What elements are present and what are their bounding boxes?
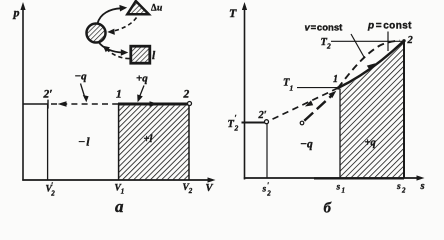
label T1 bbox=[283, 78, 293, 93]
svg-text:2: 2 bbox=[407, 35, 414, 46]
svg-text:1: 1 bbox=[116, 89, 122, 101]
solid arrow circle to triangle bbox=[98, 5, 128, 24]
vertical line at V2' bbox=[47, 104, 49, 180]
right arrowhead on bold isobar bbox=[150, 101, 159, 107]
bold isobar curve 1 to 2 bbox=[338, 41, 404, 88]
label V2' bbox=[46, 181, 56, 198]
V axis bbox=[22, 177, 215, 182]
thick scanned segment of s axis bbox=[314, 177, 404, 179]
label V1 bbox=[115, 184, 125, 196]
small open circle end of isobar extension bbox=[300, 121, 304, 125]
svg-text:+q: +q bbox=[136, 73, 148, 85]
svg-text:б: б bbox=[324, 201, 332, 217]
leader from v=const to isochore bbox=[351, 34, 364, 57]
vertical line from 2' to axis bbox=[266, 124, 268, 178]
svg-text:2: 2 bbox=[183, 89, 190, 101]
svg-text:′: ′ bbox=[267, 181, 269, 190]
svg-text:1: 1 bbox=[333, 74, 338, 85]
isobar dashed segment 2' to 1 (wire) bbox=[51, 103, 118, 105]
svg-text:s: s bbox=[336, 183, 341, 193]
point 2' open circle bbox=[265, 120, 269, 124]
svg-text:V: V bbox=[206, 183, 214, 194]
svg-text:u: u bbox=[157, 4, 162, 14]
left border of hatch at s1 bbox=[339, 89, 341, 178]
T2 level line to point 2 bbox=[331, 40, 404, 42]
svg-text:2: 2 bbox=[401, 187, 406, 195]
hatched work area +l bbox=[119, 106, 189, 180]
svg-text:2: 2 bbox=[50, 190, 55, 198]
svg-text:2: 2 bbox=[188, 187, 193, 195]
svg-text:1: 1 bbox=[290, 84, 294, 93]
svg-text:′: ′ bbox=[51, 181, 53, 190]
s axis bbox=[244, 175, 425, 180]
point 1 dot bbox=[337, 86, 340, 89]
arrowhead on isobar curve bbox=[367, 63, 376, 70]
svg-text:s: s bbox=[396, 182, 401, 192]
label V2 bbox=[183, 183, 193, 195]
svg-text:−q: −q bbox=[75, 71, 88, 83]
p axis bbox=[20, 2, 25, 181]
svg-text:а: а bbox=[115, 197, 124, 216]
isobar solid segment axis to 2' bbox=[23, 103, 48, 105]
svg-text:2′: 2′ bbox=[258, 110, 267, 121]
solid arrow circle to square bbox=[99, 42, 129, 56]
bold dashed isobar extension below 1 bbox=[304, 94, 333, 120]
label s2' bbox=[262, 181, 272, 198]
hatched heat area +q bbox=[340, 41, 404, 177]
svg-text:− l: − l bbox=[78, 135, 90, 149]
label T2 bbox=[321, 37, 332, 51]
T2' level line bbox=[242, 122, 265, 124]
right border of hatch at s2 bbox=[403, 41, 405, 178]
svg-text:−q: −q bbox=[300, 139, 313, 151]
svg-text:s: s bbox=[262, 185, 267, 195]
label s2 bbox=[396, 182, 406, 195]
svg-text:p = const: p = const bbox=[367, 21, 412, 32]
tick at point 2' bbox=[47, 100, 49, 109]
arrowhead on isochore toward 2' bbox=[305, 100, 313, 106]
vertical line at V2 bbox=[188, 105, 190, 180]
point 2 dot bbox=[402, 39, 405, 42]
svg-text:+q: +q bbox=[365, 138, 376, 149]
svg-text:2: 2 bbox=[266, 190, 271, 198]
svg-text:1: 1 bbox=[121, 188, 125, 196]
T1 level line to point 1 bbox=[297, 87, 338, 89]
svg-text:v = const: v = const bbox=[305, 23, 344, 34]
svg-text:T: T bbox=[228, 119, 235, 130]
T axis bbox=[242, 2, 247, 180]
label T2' bbox=[228, 114, 239, 133]
leader arrow from +q to bold isobar bbox=[137, 86, 144, 103]
left arrowhead on dashed isobar bbox=[58, 101, 67, 107]
dashed isochore 1 to 2' bbox=[268, 88, 338, 121]
svg-text:T: T bbox=[229, 6, 237, 20]
dashed arrow triangle to circle bbox=[107, 18, 136, 35]
svg-text:2: 2 bbox=[234, 124, 239, 133]
leader arrow from -q to dashed isobar bbox=[81, 84, 89, 103]
hatched square l bbox=[131, 46, 150, 63]
svg-text:s: s bbox=[420, 181, 425, 192]
svg-text:1: 1 bbox=[342, 187, 346, 195]
svg-text:′: ′ bbox=[235, 114, 237, 123]
hatched circle (heat source) bbox=[87, 24, 106, 43]
dashed arrow square to circle bbox=[103, 46, 130, 59]
label s1 bbox=[336, 183, 346, 195]
vertical line at V1 bbox=[118, 104, 120, 180]
point 2 open circle bbox=[188, 102, 192, 106]
svg-text:2: 2 bbox=[326, 42, 331, 51]
label delta-u bbox=[151, 3, 162, 14]
dashed isochore above 1 bbox=[338, 41, 400, 88]
leader from p=const to isobar bbox=[387, 32, 389, 52]
isobar bold segment 1 to 2 bbox=[118, 102, 189, 105]
hatched triangle delta-u bbox=[127, 1, 149, 14]
svg-text:+l: +l bbox=[144, 134, 153, 145]
svg-text:p: p bbox=[13, 6, 20, 20]
arrowhead on extension toward 1 bbox=[329, 91, 337, 98]
svg-text:2′: 2′ bbox=[43, 89, 53, 101]
